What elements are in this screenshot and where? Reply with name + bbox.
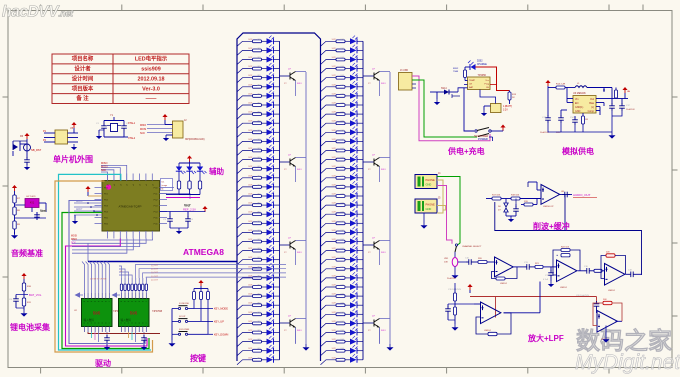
svg-text:102R: 102R [248,93,253,95]
svg-text:102R: 102R [248,257,253,259]
svg-text:102R: 102R [332,275,337,277]
svg-text:REF_2.5V: REF_2.5V [183,208,196,212]
svg-text:LM324: LM324 [608,290,615,292]
resistor R58 + LED D58 row [321,232,337,237]
resistor R42 + LED D42 row [321,87,337,92]
svg-text:102R: 102R [332,294,337,296]
power VCC out [500,125,505,131]
IC U TL431 ref [25,199,39,208]
ground audio ref [11,232,18,239]
svg-text:CE: CE [469,84,473,86]
resistor R33 + LED D33 row [237,333,253,338]
connector J USB power [399,73,413,91]
svg-text:C20 10uF/16V: C20 10uF/16V [576,295,590,297]
resistor R16 + LED D16 row [237,178,253,183]
power VCC aux [187,156,192,162]
svg-text:EN: EN [575,102,579,105]
wire button common [171,309,173,335]
svg-text:102R: 102R [248,248,253,250]
capacitor C bypass U2 [106,332,108,336]
resistor R28 + LED D28 row [237,287,253,292]
svg-text:LED电平指示: LED电平指示 [135,55,168,63]
ground clip [506,215,516,217]
resistor R25 + LED D25 row [237,260,253,265]
capacitor C lpf [550,267,552,271]
LED D aux 2 [189,163,191,167]
svg-text:102R: 102R [332,57,337,59]
svg-text:削波+缓冲: 削波+缓冲 [533,221,570,231]
svg-text:10K: 10K [444,262,448,264]
push button S2 UP [172,320,178,322]
wire transistor collector rail [389,72,391,344]
resistor R clip bias [524,203,533,206]
resistor network above U3 (base resistors) [121,291,123,294]
svg-text:R17 10K: R17 10K [492,195,501,197]
svg-text:102R: 102R [332,194,337,196]
ground U3 [141,344,147,350]
svg-text:102R: 102R [248,203,253,205]
svg-text:102R: 102R [332,184,337,186]
svg-text:Q_OUT: Q_OUT [151,265,159,267]
svg-text:102R: 102R [332,348,337,350]
ground charge [436,92,438,99]
resistor R23 + LED D23 row [237,242,253,247]
capacitor C aref 1 [167,216,173,224]
svg-text:102R: 102R [248,230,253,232]
op-amp U9A stage1 [495,257,514,277]
svg-text:单片机外围: 单片机外围 [53,154,93,164]
wire transistor collector rail [305,72,307,344]
LED D aux 1 [178,163,180,167]
feedback resistor stage3 red [601,256,606,279]
capacitor C aref 2 [185,216,191,224]
svg-text:102R: 102R [248,294,253,296]
capacitor C out 2 [621,99,623,105]
resistor R66 + LED D66 row [321,305,337,310]
reset circuit transistor Q5 [26,139,28,158]
resistor R67 + LED D67 row [321,314,337,319]
push button S3 DOWN [172,333,178,335]
transistor Q2 9013 [279,161,290,163]
resistor R key 1 [193,289,195,292]
connector J5 phone jack 2 [415,199,437,213]
svg-text:MISO: MISO [140,124,146,127]
svg-text:Comp: Comp [588,110,595,113]
pot VR1 volume [452,258,458,267]
resistor R divider 2 [13,207,16,215]
switch SW power pole2 [478,134,489,137]
power VCC ISP [162,114,167,120]
resistor R1 + LED D1 row [237,41,253,46]
wire bus cyan loop [59,174,152,350]
svg-text:595: 595 [93,311,101,316]
svg-text:102R: 102R [248,175,253,177]
resistor R24 + LED D24 row [237,251,253,256]
transistor Q4 9013 [279,322,290,324]
svg-text:102R: 102R [332,66,337,68]
wire green channel [437,177,460,246]
svg-text:102R: 102R [332,139,337,141]
feedback rect bottom left [476,313,511,334]
svg-text:GND(1): GND(1) [575,106,583,109]
svg-text:102R: 102R [332,148,337,150]
op-amp U10A bottom left [455,303,474,305]
connector J battery [491,104,502,113]
svg-text:102R: 102R [332,339,337,341]
IC U2 74HC595 [82,299,113,327]
svg-text:模拟供电: 模拟供电 [562,146,594,156]
op-amp U9C stage3 [602,270,604,272]
capacitor C out buffer [562,192,570,198]
ground ISP [166,134,173,136]
wire MCU bottom pins bend left [72,239,153,241]
IC U5 opto 4-pin [55,130,68,144]
ground battery [481,110,487,116]
resistor R48 + LED D48 row [321,141,337,146]
power VCC audio ref [12,185,17,191]
resistor R divider 3 [13,221,16,229]
resistor R aux 3 [199,172,201,182]
svg-text:Vref: Vref [40,209,47,213]
svg-text:102R: 102R [248,166,253,168]
diode pair clip [505,199,507,204]
capacitor C stage3 out [626,273,629,275]
resistor R59 + LED D59 row [321,242,337,247]
switch channel select [455,244,457,246]
svg-text:102R: 102R [248,139,253,141]
svg-text:LM358 OP: LM358 OP [543,206,554,208]
wire data bus to LED column [87,243,89,261]
resistor R21 + LED D21 row [237,223,253,228]
wire clip return [495,202,565,231]
resistor R in amp [474,261,478,263]
svg-text:S1 MODE: S1 MODE [179,303,189,305]
resistor R50 + LED D50 row [321,160,337,165]
resistor R3 + LED D3 row [237,60,253,65]
capacitor C out 1 [611,99,613,105]
resistor R49 + LED D49 row [321,151,337,156]
svg-text:102R: 102R [248,184,253,186]
svg-text:MOSI: MOSI [140,128,146,131]
svg-text:1M: 1M [585,119,588,121]
wire MCU left adc pins [74,202,102,204]
op-amp U9B stage2 [548,266,556,268]
resistor R38 + LED D38 row [321,50,337,55]
svg-text:R202: R202 [453,68,459,70]
resistor R prog [508,92,511,100]
resistor R12 + LED D12 row [237,141,253,146]
svg-text:102R: 102R [248,303,253,305]
svg-text:U4 TL431: U4 TL431 [26,196,36,198]
wire dark red latch [88,332,160,334]
wire LED cathode bus [362,41,364,360]
resistor R2 + LED D2 row [237,50,253,55]
ground transistor group [295,328,297,345]
svg-text:102R: 102R [332,166,337,168]
resistor R clip 2 [501,198,511,200]
resistor R44 + LED D44 row [321,105,337,110]
resistor R19 + LED D19 row [237,205,253,210]
resistor R4 + LED D4 row [237,69,253,74]
capacitor C in analog [547,88,549,117]
svg-text:102R: 102R [332,212,337,214]
svg-text:102R: 102R [248,84,253,86]
wire MCU right pins to Vref [160,187,175,189]
resistor R sense top [22,283,25,291]
ground MCU left [74,215,76,218]
svg-text:102R: 102R [248,194,253,196]
svg-text:CHARGE: CHARGE [477,63,487,66]
ground buttons [171,334,173,340]
svg-text:102R: 102R [248,57,253,59]
resistor R68 + LED D68 row [321,323,337,328]
svg-text:放大+LPF: 放大+LPF [527,333,564,343]
capacitor C in amp [462,261,466,263]
resistor R31 + LED D31 row [237,314,253,319]
wire bottom stage out [504,312,541,314]
resistor R56 + LED D56 row [321,214,337,219]
svg-text:SCK: SCK [101,169,106,172]
ground U2 [104,344,110,350]
resistor R65 + LED D65 row [321,296,337,301]
resistor R32 + LED D32 row [237,323,253,328]
svg-text:ISP(DOWNLOAD): ISP(DOWNLOAD) [185,138,205,141]
svg-text:Out: Out [590,98,594,101]
svg-text:102R: 102R [332,239,337,241]
resistor R6 + LED D6 row [237,87,253,92]
svg-text:102R: 102R [332,48,337,50]
svg-text:BAT_VOL: BAT_VOL [29,293,42,297]
wire bus slate loop [69,201,145,344]
svg-text:102R: 102R [248,121,253,123]
svg-text:CHANNEL SELECT: CHANNEL SELECT [462,245,482,248]
resistor R36 + LED D36 row [237,360,253,365]
op-amp U8A buffer LM358 [541,185,560,205]
svg-text:U6 ME6206: U6 ME6206 [573,92,586,95]
svg-text:辅助: 辅助 [209,166,224,176]
wire red bus bottom [470,296,597,298]
svg-text:S3 DOWN: S3 DOWN [179,329,190,331]
resistor R34 + LED D34 row [237,342,253,347]
svg-text:GND: GND [426,183,432,187]
svg-text:102R: 102R [332,285,337,287]
svg-text:102R: 102R [332,230,337,232]
resistor R aux 2 [189,172,191,182]
svg-text:102R: 102R [248,130,253,132]
ground U10B [605,326,607,337]
svg-text:102R: 102R [248,157,253,159]
resistor R26 + LED D26 row [237,269,253,274]
wire stage2 to stage3 [578,270,585,272]
svg-text:102R: 102R [332,330,337,332]
title block table [52,54,189,104]
resistor R sense bottom [22,298,25,306]
svg-text:102R: 102R [332,157,337,159]
LED D aux 3 [199,163,201,167]
svg-text:102R: 102R [248,212,253,214]
svg-text:AUDIO_OUT: AUDIO_OUT [573,193,591,197]
ground transistor group [379,328,381,345]
feedback bottom right red [593,303,603,326]
svg-text:595: 595 [130,311,138,316]
resistor R filter [556,86,565,89]
ground jacks [423,213,425,222]
svg-text:R14 2.2R: R14 2.2R [556,84,566,86]
svg-text:102R: 102R [248,221,253,223]
resistor R aux 1 [178,172,180,182]
wire bus orange loop [55,181,153,353]
svg-text:GND: GND [575,110,581,113]
connector J4 phone jack 1 [415,175,437,189]
svg-text:DS SH ST OE MR: DS SH ST OE MR [90,279,107,281]
svg-text:设计时间: 设计时间 [72,74,94,82]
svg-text:R22 103: R22 103 [561,247,570,249]
IC U6 TP4056 [468,77,491,90]
svg-text:102R: 102R [248,321,253,323]
net arrow port U2 [75,292,81,297]
op MCU chip U1 ATMEGA8 TQFP [102,181,160,232]
capacitor C clip [515,204,517,207]
svg-text:R18 10K: R18 10K [511,195,520,197]
svg-text:XTAL2: XTAL2 [128,137,136,140]
IC U7 ME6206 LDO [573,96,596,114]
diode D reset [13,144,18,150]
resistor R stage2 in [532,266,535,268]
resistor R divider 1 [13,195,16,203]
connector J-ISP header [173,121,184,138]
wire bus magenta loop [66,239,148,347]
svg-text:PHONE: PHONE [426,203,435,207]
resistor R18 + LED D18 row [237,196,253,201]
resistor R52 + LED D52 row [321,178,337,183]
wire magenta VBUS [412,76,490,141]
resistor R11 + LED D11 row [237,132,253,137]
resistor R39 + LED D39 row [321,60,337,65]
resistor R17 + LED D17 row [237,187,253,192]
resistor R63 + LED D63 row [321,278,337,283]
wire anode bus arch [237,33,321,361]
bus entries to driver U2 [82,262,85,294]
svg-text:ssis909: ssis909 [141,67,161,73]
svg-text:102R: 102R [248,266,253,268]
svg-text:102R: 102R [332,203,337,205]
svg-text:输入数码: 输入数码 [121,318,132,322]
svg-text:750R: 750R [453,71,459,73]
svg-text:KEY_DOWN: KEY_DOWN [214,334,229,337]
designator box U1 [161,179,173,191]
svg-text:S2 UP: S2 UP [179,316,186,318]
transistor Q6 9013 [363,161,374,163]
transistor pass Q [603,88,605,93]
switch SW power [475,130,477,132]
resistor R27 + LED D27 row [237,278,253,283]
ground aref [176,228,182,234]
power VCC reset [24,133,29,139]
svg-text:KEY_UP: KEY_UP [214,321,224,324]
svg-text:SCK: SCK [140,132,145,135]
capacitor C13 [560,110,562,116]
capacitor C ref [34,212,40,220]
ground lpf [548,281,554,287]
svg-text:102R: 102R [332,103,337,105]
svg-text:102R: 102R [332,75,337,77]
svg-text:102R: 102R [248,285,253,287]
svg-text:SCK: SCK [71,242,76,244]
ground battery sense [20,310,27,317]
svg-text:102R: 102R [332,84,337,86]
svg-text:ATMEGA8: ATMEGA8 [183,247,224,257]
transistor Q7 9013 [363,244,374,246]
svg-text:ADC7: ADC7 [76,208,83,211]
svg-text:(c): (c) [591,106,594,109]
svg-text:102R: 102R [248,339,253,341]
power VCC antenna analog [545,80,550,86]
svg-text:20uF/16V: 20uF/16V [447,278,456,280]
resistor R9 + LED D9 row [237,114,253,119]
svg-text:Q_OUT: Q_OUT [151,279,159,281]
svg-text:3.2V: 3.2V [503,110,508,112]
ground reset [24,164,30,170]
svg-text:102R: 102R [332,39,337,41]
wire battery to circuit [464,88,474,131]
capacitor C stage1 out [524,264,532,270]
svg-text:102R: 102R [332,93,337,95]
resistor R35 + LED D35 row [237,351,253,356]
svg-text:锂电池采集: 锂电池采集 [10,322,51,332]
resistor R30 + LED D30 row [237,305,253,310]
svg-text:Q_OUT: Q_OUT [151,269,159,271]
transistor Q5 9013 [363,75,374,77]
resistor R key 2 [200,289,202,292]
resistor R15 [582,116,585,124]
resistor R bias 1 [454,293,457,301]
ground crystal [96,133,102,139]
resistor R5 + LED D5 row [237,78,253,83]
svg-text:按键: 按键 [190,353,206,363]
svg-text:102R: 102R [332,312,337,314]
resistor R53 + LED D53 row [321,187,337,192]
svg-text:(mega: (mega [162,185,169,187]
svg-text:102R: 102R [332,121,337,123]
svg-text:TEMP: TEMP [469,80,476,82]
wire MCU top pins [101,172,108,181]
resistor R37 + LED D37 row [321,41,337,46]
svg-text:ATMEGA8-TQFP: ATMEGA8-TQFP [118,205,141,209]
resistor R47 + LED D47 row [321,132,337,137]
resistor R55 + LED D55 row [321,205,337,210]
diode D SS14 [430,91,444,93]
svg-text:供电+充电: 供电+充电 [447,146,485,156]
power VCC aref [202,206,207,212]
svg-text:项目版本: 项目版本 [72,84,94,92]
svg-text:Prog: Prog [484,83,489,86]
svg-text:102R: 102R [248,66,253,68]
svg-text:Q_OUT: Q_OUT [151,272,159,274]
resistor R43 + LED D43 row [321,96,337,101]
feedback RC stage2 [553,250,561,275]
resistor R54 + LED D54 row [321,196,337,201]
svg-text:J3 USB: J3 USB [400,70,408,72]
ground U5 [71,144,77,150]
svg-text:10uF/10V: 10uF/10V [626,109,635,111]
transistor Q3 9013 [279,244,290,246]
svg-text:XTAL1: XTAL1 [128,122,136,125]
wire analog out node [611,88,613,99]
svg-text:102R: 102R [248,148,253,150]
capacitor C14 [574,116,576,118]
resistor R key 3 [207,289,209,292]
resistor R45 + LED D45 row [321,114,337,119]
